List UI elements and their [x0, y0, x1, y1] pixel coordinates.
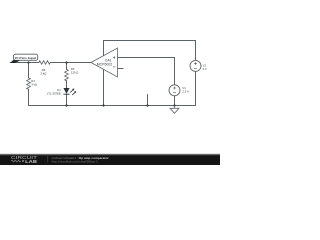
- svg-text:LAB: LAB: [25, 159, 38, 164]
- svg-text:LTL-307EE: LTL-307EE: [47, 91, 61, 95]
- svg-text:Pi Pico Input: Pi Pico Input: [15, 56, 36, 60]
- svg-text:5 V: 5 V: [203, 67, 207, 71]
- svg-text:120 Ω: 120 Ω: [71, 70, 79, 74]
- svg-text:2 kΩ: 2 kΩ: [41, 71, 47, 75]
- svg-text:2.5 V: 2.5 V: [182, 89, 189, 93]
- svg-text:3 kΩ: 3 kΩ: [31, 82, 37, 86]
- svg-text:http://circuitlab.com/c/uq028k: http://circuitlab.com/c/uq028kyp-3: [52, 160, 98, 164]
- svg-text:MCP6002: MCP6002: [97, 62, 113, 66]
